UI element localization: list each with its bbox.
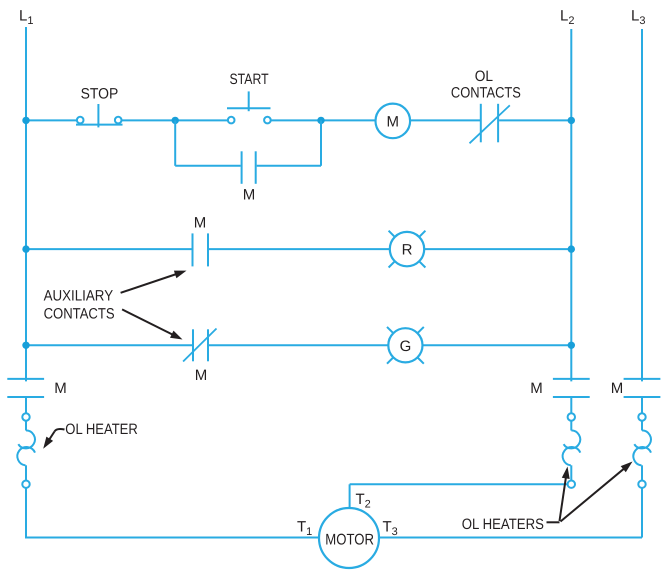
wire rung 1 — [26, 119, 571, 121]
svg-text:T2: T2 — [356, 491, 371, 511]
svg-text:OL HEATER: OL HEATER — [65, 421, 138, 438]
label M holding — [243, 187, 256, 204]
svg-text:MOTOR: MOTOR — [325, 531, 374, 548]
OL heater L2 — [563, 430, 581, 465]
svg-text:OL: OL — [475, 68, 493, 85]
wire T2 run to L2 heater — [350, 484, 568, 508]
wire L1 vertical rail — [25, 27, 27, 539]
contact M auxiliary NC (rung 3) — [183, 329, 216, 362]
label T3 — [383, 519, 398, 539]
svg-text:CONTACTS: CONTACTS — [44, 305, 115, 322]
svg-text:OL HEATERS: OL HEATERS — [462, 516, 544, 533]
OL heater L3 — [633, 430, 651, 465]
svg-text:T3: T3 — [383, 519, 398, 539]
wire bottom rail right (motor to L3) — [379, 537, 643, 539]
junction node L2-rung2 — [568, 245, 575, 252]
svg-text:T1: T1 — [297, 519, 312, 539]
node L2 label — [560, 8, 574, 28]
pilot light G — [387, 327, 424, 364]
wire rung 2 — [26, 248, 571, 250]
svg-text:AUXILIARY: AUXILIARY — [44, 287, 114, 304]
svg-text:M: M — [530, 380, 543, 397]
node L3 label — [631, 8, 645, 28]
svg-text:M: M — [194, 215, 207, 232]
svg-text:L3: L3 — [631, 8, 645, 28]
arrow to OL heater L2 — [560, 467, 570, 522]
label OL CONTACTS — [451, 68, 521, 101]
contact M power L2 — [553, 379, 590, 397]
terminal L3 lower — [638, 481, 645, 488]
svg-text:R: R — [402, 242, 413, 259]
terminal L1 upper — [22, 413, 29, 420]
wire L2 vertical rail — [570, 29, 572, 481]
coil M — [376, 104, 411, 139]
leader dash OL HEATERS — [547, 521, 560, 523]
svg-text:M: M — [611, 380, 624, 397]
junction node branch-left — [172, 117, 179, 124]
label OL HEATER — [65, 421, 138, 438]
pilot light R — [389, 231, 426, 268]
label STOP — [81, 86, 119, 103]
terminal L2 lower — [568, 481, 575, 488]
label M rung2 — [194, 215, 207, 232]
svg-text:M: M — [195, 367, 208, 384]
contact M holding (NO) — [242, 151, 256, 184]
svg-text:L1: L1 — [19, 8, 33, 28]
label T2 — [356, 491, 371, 511]
contact OL (NC overload contacts) — [470, 104, 510, 144]
junction node L1-rung3 — [22, 342, 29, 349]
wire L3 vertical rail — [641, 29, 643, 538]
label M power L1 — [54, 380, 67, 397]
label AUXILIARY CONTACTS — [44, 287, 115, 322]
OL heater L1 — [17, 430, 35, 465]
contact M power L3 — [624, 379, 661, 397]
terminal L2 upper — [568, 413, 575, 420]
label T1 — [297, 519, 312, 539]
label OL HEATERS — [462, 516, 544, 533]
label M power L2 — [530, 380, 543, 397]
label M power L3 — [611, 380, 624, 397]
svg-text:M: M — [387, 113, 400, 130]
wire bottom rail left (L1 to motor) — [26, 537, 320, 539]
svg-text:G: G — [400, 338, 412, 355]
svg-text:CONTACTS: CONTACTS — [451, 84, 521, 101]
arrow to NO auxiliary contact — [121, 271, 187, 293]
svg-text:M: M — [243, 187, 256, 204]
junction node L2-rung1 — [568, 117, 575, 124]
junction node L2-rung3 — [568, 342, 575, 349]
contact M auxiliary NO (rung 2) — [193, 233, 209, 266]
node L1 label — [19, 8, 33, 28]
motor M — [319, 508, 379, 568]
terminal L1 lower — [22, 481, 29, 488]
contact M power L1 — [7, 379, 44, 397]
svg-text:START: START — [230, 71, 269, 88]
pushbutton STOP (NC) — [76, 104, 123, 127]
wire holding branch — [175, 120, 321, 165]
pushbutton START (NO) — [227, 91, 271, 123]
svg-text:STOP: STOP — [81, 86, 119, 103]
arrow to OL heater L1 — [43, 429, 64, 449]
terminal L3 upper — [638, 413, 645, 420]
svg-text:M: M — [54, 380, 67, 397]
junction node branch-right — [317, 117, 324, 124]
arrow to NC auxiliary contact — [122, 309, 182, 339]
label M rung3 — [195, 367, 208, 384]
junction node L1-rung1 — [22, 117, 29, 124]
label START — [230, 71, 269, 88]
junction node L1-rung2 — [22, 245, 29, 252]
arrow to OL heater L3 — [561, 462, 633, 522]
svg-text:L2: L2 — [560, 8, 574, 28]
wire rung 3 — [26, 344, 571, 346]
